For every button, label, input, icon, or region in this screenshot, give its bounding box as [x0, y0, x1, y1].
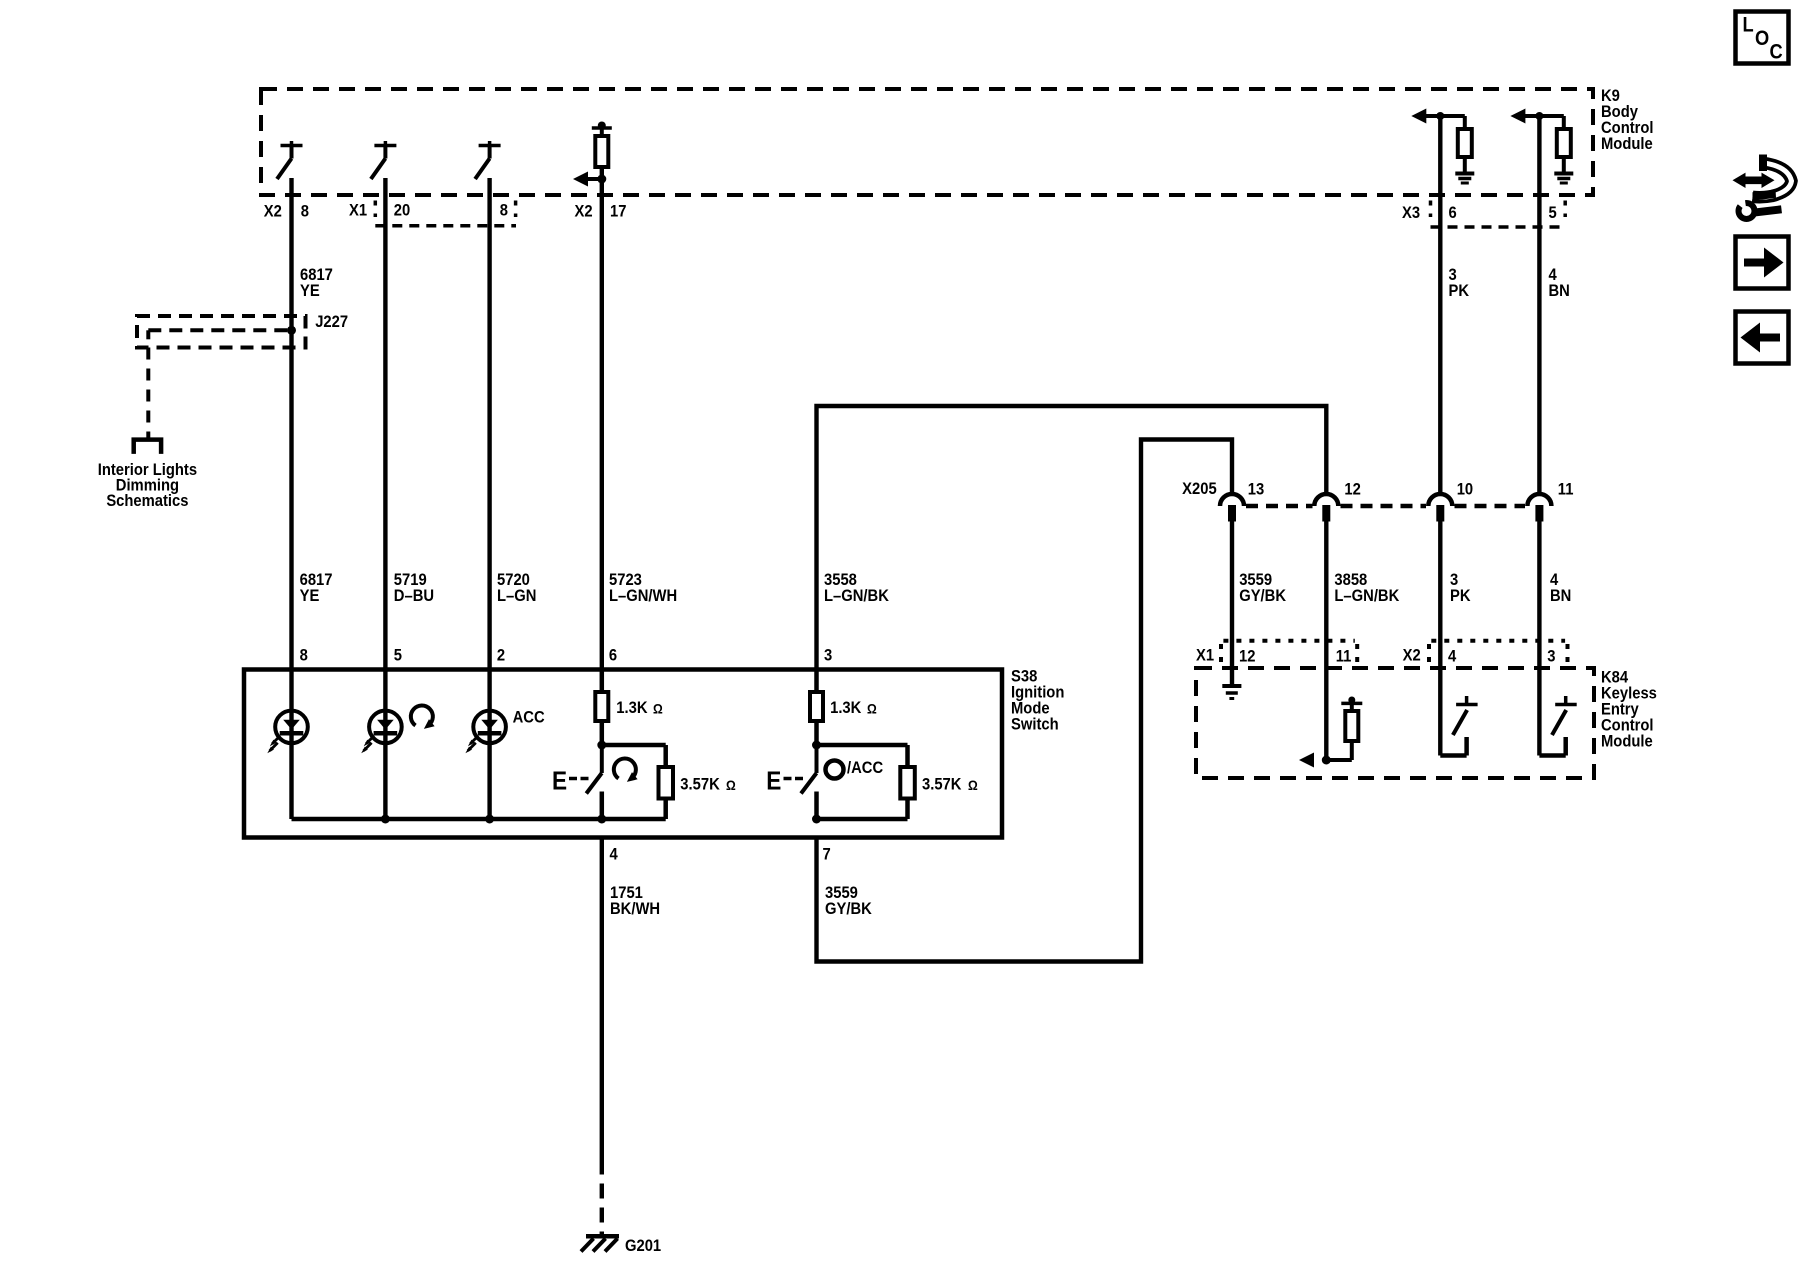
connector half-circle X205 pin 12: [1314, 494, 1338, 522]
label X205: [1182, 480, 1217, 498]
wire 6817 YE from K9 X2-8 to S38 pin 8: [289, 178, 293, 670]
splice pack J227 dashed boxes: [137, 316, 306, 348]
connector X1 dotted box at K84: [1221, 641, 1357, 663]
wire label 1751 BK/WH: [610, 884, 660, 918]
svg-text:Switch: Switch: [1011, 716, 1059, 734]
connector half-circle X205 pin 11: [1527, 494, 1551, 522]
section 2 bottom link wire: [812, 815, 908, 824]
svg-text:3: 3: [824, 647, 832, 665]
svg-text:Ω: Ω: [867, 701, 877, 717]
resistor inside K9 on pin X2-17 wire: [592, 122, 612, 168]
svg-text:D–BU: D–BU: [394, 587, 434, 605]
svg-text:4: 4: [610, 846, 618, 864]
wire 3559 GY/BK from X205-13 to K84 X1-12: [1230, 520, 1234, 684]
arrow (signal to left) at K9 pin X2-17 with junction: [573, 172, 606, 187]
wire label 4 BN (upper): [1549, 266, 1570, 300]
wire label 3559 GY/BK (below X205): [1239, 571, 1286, 605]
switch inside K9 (output to pin X1-8): [475, 141, 501, 179]
svg-text:O: O: [1755, 27, 1769, 50]
svg-text:BN: BN: [1550, 587, 1571, 605]
wire 3558 L-GN/BK from S38 pin 3 routed to X205 pin 12: [817, 406, 1327, 670]
svg-text:X2: X2: [264, 203, 282, 221]
connector label X2 pins 4 and 3 (K84): [1403, 647, 1556, 666]
wire label 3559 GY/BK (at pin 7): [825, 884, 872, 918]
pin 12 label X205: [1344, 481, 1361, 499]
svg-text:5: 5: [394, 647, 402, 665]
O/ACC contact label on section 2 switch: [826, 759, 884, 778]
pin 13 label X205: [1248, 481, 1265, 499]
connector X3 dotted box under K9: [1431, 201, 1566, 228]
wire through LED 2 to internal bus: [383, 670, 387, 820]
LED indicator lamp S38 pin 2 circuit (ACC): [465, 711, 506, 754]
wire label 3 PK (upper): [1449, 266, 1470, 300]
wire label 4 BN (below X205): [1550, 571, 1571, 605]
wire 1751 BK/WH from S38 pin 4 to G201: [600, 838, 604, 1175]
chassis ground G201: [581, 1236, 619, 1251]
pin 3 label S38: [824, 647, 832, 665]
wire 5723 L-GN/WH from K9 X2-17 to S38 pin 6: [600, 167, 604, 670]
svg-text:X1: X1: [349, 202, 367, 220]
label J227: [315, 313, 348, 331]
dashed wire from J227 to Interior Lights Dimming Schematics: [146, 348, 150, 440]
wire 5719 D-BU from K9 X1-20 to S38 pin 5: [383, 178, 387, 670]
svg-text:1.3K: 1.3K: [830, 699, 862, 717]
module K84 Keyless Entry Control Module dashed box: [1196, 668, 1594, 778]
wire label 6817 YE (upper): [300, 266, 333, 300]
svg-text:L–GN: L–GN: [497, 587, 536, 605]
svg-text:X3: X3: [1402, 204, 1420, 222]
dashes after E (section 2): [784, 777, 804, 781]
svg-text:6: 6: [1449, 204, 1457, 222]
svg-text:1.3K: 1.3K: [616, 699, 648, 717]
svg-text:ACC: ACC: [513, 709, 545, 727]
LOC legend box: [1736, 12, 1789, 64]
off-page pointer bracket to Interior Lights Dimming Schematics: [134, 440, 161, 454]
svg-text:J227: J227: [315, 313, 348, 331]
svg-text:11: 11: [1336, 648, 1352, 666]
svg-text:8: 8: [300, 647, 308, 665]
svg-text:Schematics: Schematics: [106, 492, 188, 510]
svg-text:3: 3: [1547, 648, 1555, 666]
wire label 5719 D-BU: [394, 571, 434, 605]
wire label 6817 YE: [300, 571, 333, 605]
label E (section 1 switch): [552, 767, 567, 796]
connector X2 dotted box at K84: [1429, 641, 1568, 663]
backward arrow legend box: [1736, 312, 1789, 364]
ground symbol inside K84 on X1-12 wire: [1222, 686, 1241, 699]
svg-text:X2: X2: [1403, 647, 1421, 665]
rotate-clockwise icon on section 1 switch: [614, 759, 638, 782]
connector half-circle X205 pin 10: [1428, 494, 1452, 522]
pin 10 label X205: [1457, 481, 1474, 499]
label ACC beside LED 3: [513, 709, 545, 727]
switch with 1.3K and 3.57K resistors S38 section pin6/pin4: [586, 670, 673, 820]
svg-text:2: 2: [497, 647, 505, 665]
connector label X2 pin 8: [264, 203, 309, 221]
svg-text:12: 12: [1344, 481, 1361, 499]
dashes after E (section 1): [569, 777, 589, 781]
pin 6 label S38: [609, 647, 617, 665]
navigation icon double arrow with wrench: [1733, 155, 1792, 220]
svg-text:L–GN/WH: L–GN/WH: [609, 587, 677, 605]
svg-text:17: 17: [610, 203, 627, 221]
label K9 Body Control Module: [1601, 87, 1654, 153]
value label 3.57K ohm (section 1): [680, 776, 735, 794]
internal bus wire joining LED cathodes and section 1 bottom: [292, 815, 666, 824]
wire 3559 GY/BK from S38 pin 7 routed to X205 pin 13: [817, 440, 1233, 962]
svg-text:YE: YE: [300, 282, 320, 300]
pin 4 label S38: [610, 846, 618, 864]
value label 1.3K ohm (section 2): [830, 699, 877, 717]
pin 5 label S38: [394, 647, 402, 665]
svg-text:E: E: [552, 767, 567, 796]
junction of wire 6817 at J227: [287, 326, 296, 335]
svg-text:3.57K: 3.57K: [922, 776, 962, 794]
wire through LED 3 to internal bus: [487, 670, 491, 820]
connector label X3 pins 6 and 5: [1402, 204, 1557, 222]
label G201: [625, 1237, 661, 1255]
svg-text:GY/BK: GY/BK: [1239, 587, 1286, 605]
wire 4 BN from K9 X3-5 to X205 pin 11: [1537, 116, 1541, 494]
wire 3 PK from K9 X3-6 to X205 pin 10: [1438, 116, 1442, 494]
wire label 3 PK (below X205): [1450, 571, 1471, 605]
dashed connector line X205 12-10: [1341, 504, 1427, 509]
svg-text:20: 20: [394, 202, 411, 220]
svg-text:PK: PK: [1449, 282, 1470, 300]
wire label 3558 L-GN/BK: [824, 571, 889, 605]
svg-text:PK: PK: [1450, 587, 1471, 605]
wire 3858 L-GN/BK from X205-12 to K84 X1-11: [1324, 520, 1328, 760]
resistor to ground inside K9 on pin X3-6 wire (with left arrow): [1411, 109, 1474, 184]
wire 4 BN from X205-11 to K84 X2-3: [1537, 520, 1541, 756]
rotate-clockwise icon beside LED 2: [411, 706, 435, 729]
wire label 5720 L-GN: [497, 571, 536, 605]
value label 1.3K ohm (section 1): [616, 699, 662, 717]
wire label 5723 L-GN/WH: [609, 571, 677, 605]
svg-text:Ω: Ω: [726, 777, 736, 793]
connector half-circle X205 pin 13: [1220, 494, 1244, 522]
label S38 Ignition Mode Switch: [1011, 668, 1064, 734]
svg-text:L: L: [1743, 13, 1754, 36]
pin 2 label S38: [497, 647, 505, 665]
svg-text:6: 6: [609, 647, 617, 665]
svg-text:5: 5: [1549, 204, 1557, 222]
resistor to ground inside K9 on pin X3-5 wire (with left arrow): [1510, 109, 1573, 184]
svg-text:12: 12: [1239, 648, 1256, 666]
switch inside K84 on X2-3 wire: [1539, 696, 1576, 756]
svg-text:E: E: [766, 767, 781, 796]
connector label X1 pins 12 and 11 (K84): [1196, 647, 1351, 666]
svg-text:13: 13: [1248, 481, 1265, 499]
wire label 3858 L-GN/BK: [1334, 571, 1399, 605]
connector label X2 pin 17: [575, 203, 627, 221]
svg-text:YE: YE: [300, 587, 320, 605]
svg-text:BK/WH: BK/WH: [610, 900, 660, 918]
svg-text:Module: Module: [1601, 733, 1653, 751]
switch inside K9 (output to pin X2-8): [277, 141, 303, 179]
switch inside K84 on X2-4 wire: [1440, 696, 1477, 756]
dashed connector line X205 10-11: [1455, 504, 1526, 509]
dashed wire segment to G201: [600, 1175, 604, 1237]
svg-text:C: C: [1770, 40, 1783, 63]
pin 8 label S38: [300, 647, 308, 665]
dashed connector line X205 13-12: [1246, 504, 1313, 509]
svg-text:Module: Module: [1601, 135, 1653, 153]
switch with 1.3K and 3.57K resistors S38 section pin3/pin7: [801, 670, 915, 820]
connector X1 dotted box under K9: [375, 201, 516, 226]
module S38 Ignition Mode Switch box: [244, 670, 1002, 838]
svg-text:/ACC: /ACC: [847, 759, 884, 777]
svg-text:L–GN/BK: L–GN/BK: [1334, 587, 1399, 605]
label E (section 2 switch): [766, 767, 781, 796]
svg-text:10: 10: [1457, 481, 1474, 499]
svg-text:8: 8: [301, 203, 309, 221]
svg-text:7: 7: [823, 846, 831, 864]
svg-text:4: 4: [1448, 648, 1456, 666]
value label 3.57K ohm (section 2): [922, 776, 978, 794]
LED indicator lamp S38 pin 8 circuit: [267, 711, 308, 754]
svg-text:L–GN/BK: L–GN/BK: [824, 587, 889, 605]
switch inside K9 (output to pin X1-20): [371, 141, 397, 179]
svg-text:BN: BN: [1549, 282, 1570, 300]
svg-text:X205: X205: [1182, 480, 1217, 498]
svg-text:3.57K: 3.57K: [680, 776, 720, 794]
svg-text:GY/BK: GY/BK: [825, 900, 872, 918]
label Interior Lights Dimming Schematics: [98, 461, 197, 510]
svg-text:11: 11: [1558, 481, 1574, 499]
wire through LED 1 to internal bus: [289, 670, 293, 820]
connector label X1 pins 20 and 8: [349, 202, 508, 220]
svg-text:Ω: Ω: [653, 701, 663, 717]
pin 11 label X205: [1558, 481, 1574, 499]
label K84 Keyless Entry Control Module: [1601, 669, 1657, 751]
svg-text:Ω: Ω: [968, 777, 978, 793]
svg-text:X2: X2: [575, 203, 593, 221]
pin 7 label S38: [823, 846, 831, 864]
wire 5720 L-GN from K9 X1-8 to S38 pin 2: [487, 178, 491, 670]
LED indicator lamp S38 pin 5 circuit: [361, 711, 402, 754]
svg-text:G201: G201: [625, 1237, 661, 1255]
wire 3 PK from X205-10 to K84 X2-4: [1438, 520, 1442, 756]
module K9 Body Control Module dashed box: [261, 89, 1593, 195]
svg-text:X1: X1: [1196, 647, 1214, 665]
pull-up resistor inside K84 on X1-11 wire with left arrow: [1299, 697, 1362, 768]
svg-text:8: 8: [500, 202, 508, 220]
forward arrow legend box: [1736, 237, 1789, 289]
